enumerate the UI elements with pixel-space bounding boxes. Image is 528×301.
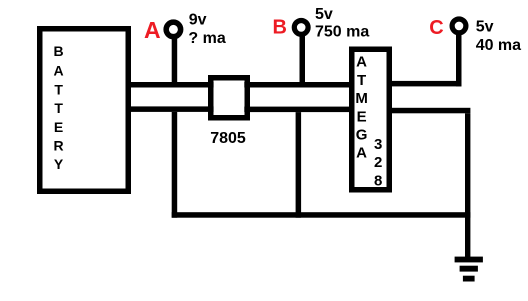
- regulator 7805: [211, 78, 248, 118]
- wire: middle column below bottom rail: [296, 112, 302, 218]
- svg-text:B: B: [54, 43, 64, 59]
- svg-text:E: E: [357, 108, 367, 125]
- wire: ATMEGA to ground column (bottom right): [387, 108, 471, 114]
- svg-text:M: M: [355, 90, 368, 107]
- wire: ATMEGA to node C column (top right): [387, 81, 462, 87]
- svg-text:A: A: [144, 17, 161, 43]
- svg-text:3: 3: [374, 136, 382, 153]
- svg-text:9v: 9v: [189, 11, 207, 28]
- wire: battery to 7805 bottom: [126, 106, 214, 112]
- MCU U1 ATMEGA328: [352, 49, 390, 190]
- svg-text:2: 2: [374, 154, 382, 171]
- svg-text:C: C: [429, 17, 443, 39]
- svg-text:5v: 5v: [476, 18, 494, 35]
- svg-text:7805: 7805: [210, 130, 246, 147]
- wire: node A drop to top rail: [172, 36, 178, 88]
- svg-text:T: T: [54, 81, 63, 97]
- svg-text:A: A: [54, 63, 64, 79]
- wire: left column below bottom rail: [172, 112, 178, 218]
- node A terminal circle: [166, 22, 181, 37]
- battery BT1: [40, 29, 129, 192]
- svg-text:E: E: [54, 119, 63, 135]
- battery label BATTERY: [54, 43, 64, 172]
- ground symbol: [455, 257, 483, 282]
- wire: 7805 to ATMEGA top: [244, 82, 354, 88]
- svg-text:T: T: [357, 72, 366, 89]
- svg-text:Y: Y: [54, 156, 64, 172]
- svg-text:5v: 5v: [315, 6, 333, 23]
- svg-text:A: A: [356, 145, 367, 162]
- svg-text:T: T: [54, 100, 63, 116]
- ATMEGA vertical label: [355, 54, 368, 162]
- node C terminal circle: [452, 19, 466, 33]
- wire: 7805 to ATMEGA bottom: [244, 107, 354, 113]
- svg-text:8: 8: [374, 173, 382, 190]
- wire: ground return bus: [172, 212, 471, 218]
- svg-text:750 ma: 750 ma: [315, 23, 369, 40]
- wire: node B drop to top rail: [300, 34, 306, 88]
- wire: node C drop to top rail: [456, 33, 462, 87]
- svg-text:B: B: [273, 16, 287, 38]
- node B terminal circle: [294, 21, 308, 35]
- svg-text:? ma: ? ma: [188, 30, 225, 47]
- svg-text:A: A: [356, 54, 367, 71]
- 328 digits label: [374, 136, 382, 190]
- svg-text:G: G: [356, 127, 368, 144]
- wire: ground column: [465, 113, 470, 257]
- svg-text:40 ma: 40 ma: [476, 37, 521, 54]
- svg-text:R: R: [54, 137, 64, 153]
- wire: battery to 7805 top: [126, 82, 214, 88]
